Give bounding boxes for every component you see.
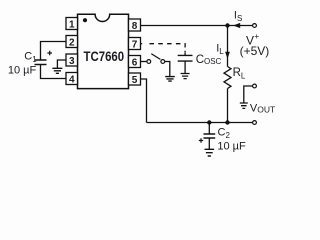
arrow IS (current into circuit) [233,23,240,28]
ground (VOUT reference) [240,103,248,108]
capacitor C2 [204,134,216,138]
output rail (VOUT) [147,122,253,124]
pin 5 box [129,73,141,86]
terminal VOUT (open circle, rail) [253,121,257,125]
wire C2 to ground [208,138,210,149]
wire pin6 to switch [141,61,147,63]
pin 1 box [66,18,78,31]
svg-text:3: 3 [69,56,75,67]
pin 8 box [129,19,141,32]
svg-text:(+5V): (+5V) [240,44,270,58]
switch S1 right contact [161,60,165,64]
dashed wire pin7 to COSC [141,43,143,45]
terminal VOUT reference (open circle to ground) [253,84,257,88]
node junction (RL bottom) [225,120,229,124]
svg-text:2: 2 [69,37,75,48]
svg-text:4: 4 [69,74,75,85]
svg-text:5: 5 [132,75,138,86]
switch S1 blade [151,54,160,60]
wire C1 bottom to pin4 [41,65,67,79]
capacitor C1 [35,60,47,65]
wire IL branch down [227,26,229,67]
pin 7 box [129,38,141,51]
wire switch to ground [165,62,170,77]
pin 2 box [66,36,78,49]
pin-1 indicator dot [83,18,87,22]
capacitor COSC [178,55,193,61]
plus sign of C1 [47,51,52,56]
wire COSC to ground [184,61,186,73]
switch S1 left contact [147,60,151,64]
wire pin8 to top rail [141,25,253,27]
resistor RL [224,67,231,89]
node junction (V+ rail / RL branch) [225,23,229,27]
op-amp U1 : TC7660 IC body with notch [78,14,129,88]
svg-text:TC7660: TC7660 [84,48,125,64]
svg-text:6: 6 [132,57,138,68]
ground (pin 3) [52,68,62,73]
svg-text:8: 8 [132,21,138,32]
wire VOUT ref terminal to ground [244,86,253,103]
wire RL bottom to output rail [227,89,229,123]
wire pin5 down to output rail [141,79,147,123]
pin 6 box [129,56,141,69]
svg-text:10 µF: 10 µF [8,64,37,76]
wire pin3 to ground [57,60,66,68]
terminal V+ (open circle) [253,24,257,28]
svg-text:+: + [254,31,259,41]
svg-text:7: 7 [132,39,138,50]
wire pin2 to C1 top [41,42,67,61]
svg-text:VOUT: VOUT [250,103,275,115]
ground (C2) [205,149,215,156]
pin 4 box [66,73,78,86]
svg-text:1: 1 [69,19,75,30]
ground (switch) [165,77,175,82]
ground (COSC) [181,74,190,79]
svg-text:10 µF: 10 µF [217,141,246,153]
wire C2 from rail [208,123,210,135]
node junction (C2) [207,120,211,124]
pin 3 box [66,54,78,67]
arrow IL (current down) [225,52,230,59]
plus sign of C2 [199,138,203,142]
